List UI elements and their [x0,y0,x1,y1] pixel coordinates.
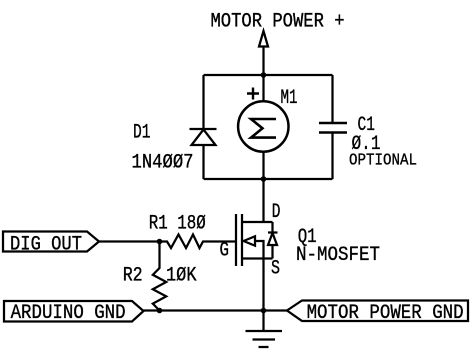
wire left branch lower [202,145,204,179]
flag DIG OUT [3,232,99,252]
svg-text:G: G [220,240,230,263]
wire drain [262,179,264,222]
svg-text:1N4ØØ7: 1N4ØØ7 [132,152,194,175]
svg-text:R2: R2 [123,265,143,288]
transistor Q1 body diode [268,222,278,259]
wire bottom rail [204,178,333,180]
svg-text:OPTIONAL: OPTIONAL [349,151,417,170]
svg-text:1ØK: 1ØK [166,265,197,288]
svg-text:ARDUINO GND: ARDUINO GND [11,302,126,325]
transistor Q1 source horiz [242,257,273,259]
wire arrow to top rail [262,47,264,76]
wire cap top lead [331,75,333,123]
flag MOTOR POWER GND [287,301,468,322]
junction R2 bottom [157,308,163,314]
wire ground rail [144,309,288,311]
wire left branch upper [202,75,204,129]
wire source [262,259,264,311]
wire motor top lead [262,75,264,102]
wire motor bottom lead [262,152,264,180]
svg-text:MOTOR POWER GND: MOTOR POWER GND [307,302,464,325]
power arrow [259,31,268,47]
transistor Q1 channel bar [241,214,243,266]
motor plus sign [247,88,259,100]
wire dig out to junction [99,240,160,242]
svg-text:D: D [272,201,281,224]
transistor Q1 body arrow [255,241,264,259]
svg-text:MOTOR POWER +: MOTOR POWER + [211,11,345,34]
svg-text:M1: M1 [281,87,298,110]
svg-text:D1: D1 [133,122,151,145]
motor M1 circle [238,101,288,151]
junction gate node [157,239,163,245]
motor sigma symbol [251,119,276,138]
svg-text:S: S [271,258,280,281]
capacitor C1 [319,123,347,133]
junction top [261,72,267,78]
transistor Q1 drain horiz [242,221,273,223]
junction ground node [261,308,267,314]
svg-text:DIG OUT: DIG OUT [10,234,82,257]
wire top rail [204,74,333,76]
diode D1 [190,128,217,130]
svg-text:R1 18Ø: R1 18Ø [149,213,206,236]
junction motor bottom [261,176,267,182]
ground [246,311,283,348]
flag ARDUINO GND [4,301,144,322]
wire cap bottom lead [331,133,333,180]
transistor Q1 gate bar [235,214,237,266]
resistor R1 [160,235,237,249]
svg-text:N-MOSFET: N-MOSFET [296,244,380,267]
resistor R2 [153,242,166,311]
